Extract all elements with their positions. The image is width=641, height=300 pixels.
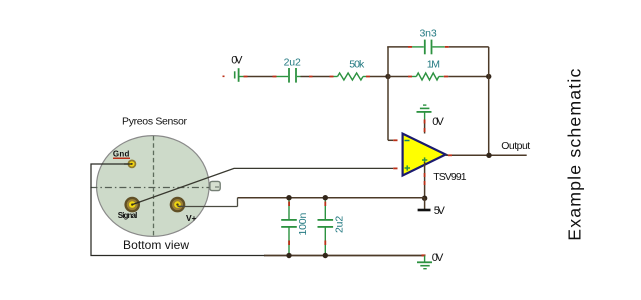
svg-text:50k: 50k [349,59,365,71]
node junction supply [422,196,427,201]
svg-text:100n: 100n [297,213,309,236]
wire left vertical [387,47,389,140]
svg-text:Gnd: Gnd [113,149,130,158]
wire [248,76,273,78]
svg-text:2u2: 2u2 [284,56,301,68]
wire sensor Gnd black [91,164,265,256]
sensor body Pyreos [90,136,220,237]
capacitor C4 2u2 [318,198,346,255]
wire [424,198,426,209]
svg-text:5V: 5V [434,205,446,217]
wire [388,76,408,78]
sensor center line horizontal [90,187,213,189]
op-amp bottom supply pin [424,162,426,198]
wire [370,76,388,78]
capacitor C2 3n3 [408,27,449,54]
wire [313,76,330,78]
wire top right [449,46,489,48]
node junction output [486,153,491,158]
pin Signal [124,197,140,213]
svg-text:Example schematic: Example schematic [565,69,585,241]
wire output [446,154,527,156]
svg-text:1M: 1M [427,58,440,70]
wire inverting input [388,139,393,141]
wire stub over Signal pin [132,202,140,205]
wire right vertical feedback [488,47,490,155]
wire non-inverting input [132,168,393,204]
wire V+ step [237,198,239,207]
svg-text:Bottom view: Bottom view [123,238,189,252]
svg-text:2u2: 2u2 [333,216,345,233]
svg-text:0V: 0V [432,116,444,128]
sensor center line vertical [153,136,155,236]
sensor tab [210,181,220,190]
svg-text:Output: Output [501,140,530,152]
resistor R1 50k [330,59,371,80]
wire bottom rail brown [264,255,425,257]
capacitor C1 2u2 [273,56,313,82]
op-amp top supply pin [424,120,426,134]
svg-text:Pyreos Sensor: Pyreos Sensor [122,115,188,127]
wire stub over V+ pin [178,205,186,207]
wire sensor V+ black [178,206,238,208]
ground 0V bottom [417,252,444,269]
svg-text:3n3: 3n3 [420,27,437,39]
capacitor C3 100n [281,198,309,255]
power rail 5V bar [418,205,446,217]
svg-text:0V: 0V [231,55,243,67]
svg-text:Signal: Signal [118,211,138,220]
svg-text:0V: 0V [432,252,444,264]
node junction rail top right [323,195,328,200]
wire stub over Gnd pin [124,163,132,165]
node junction left [385,74,390,79]
wire top left [387,46,408,48]
node junction bottom right [323,253,328,258]
pin V+ [170,197,186,213]
op-amp U1 TSV991 [403,134,467,184]
pin Gnd [127,160,136,169]
wire [448,76,489,78]
resistor R2 1M [408,58,448,80]
svg-text:TSV991: TSV991 [433,171,467,183]
node junction rail top left [286,195,291,200]
ground 0V top [417,105,445,128]
node junction bottom left [286,253,291,258]
terminal VG1 0V input [223,55,248,82]
node junction right top [486,74,491,79]
wire V+ rail horizontal [238,197,425,199]
svg-text:V+: V+ [186,213,197,223]
